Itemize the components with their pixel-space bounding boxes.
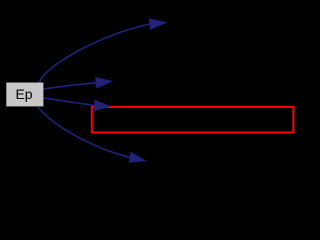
svg-text:Ep: Ep: [15, 86, 32, 102]
edge Ep -> mid node: [44, 78, 112, 89]
edge Ep -> red node: [44, 98, 110, 111]
node (red highlighted, empty): [92, 107, 294, 133]
edge Ep -> bottom node: [38, 107, 145, 162]
edge Ep -> top node: [40, 19, 166, 82]
node Ep: [6, 83, 43, 107]
